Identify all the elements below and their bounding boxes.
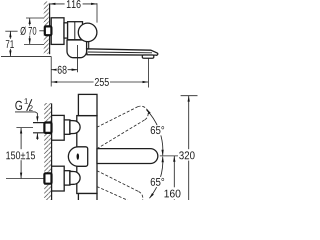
dim 160 (173, 156, 175, 200)
G 1/2 label (15, 101, 22, 110)
dim 320 (188, 96, 190, 200)
dim 68 (51, 69, 77, 71)
dim 116 (50, 3, 98, 22)
wall extension line down (50, 56, 52, 86)
faucet body side view (51, 18, 158, 58)
body column (52, 94, 158, 201)
wall face line (49, 4, 51, 54)
dim Ø70 (24, 18, 44, 44)
knob/lever (68, 147, 87, 167)
65° arcs (146, 110, 162, 156)
dim 255 (51, 81, 148, 83)
dim 150±15 (20, 128, 22, 179)
dashed swivel capsules (97, 106, 148, 205)
spout centre extension (160, 155, 179, 157)
wall hatching (44, 2, 50, 54)
dim 71 (1, 31, 51, 56)
pipe stub (33, 123, 44, 133)
